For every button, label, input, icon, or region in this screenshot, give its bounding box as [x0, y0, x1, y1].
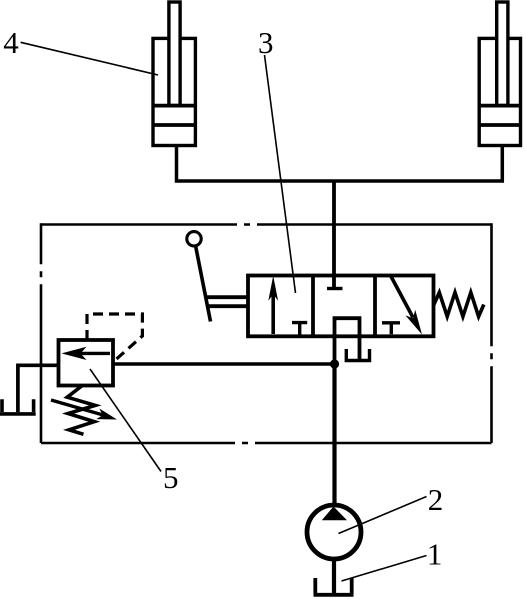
enclosure dash-dot box right edge [490, 223, 493, 443]
wire: pump to valve [332, 364, 336, 507]
valve divider right [373, 276, 377, 337]
relief valve 5 body [59, 340, 114, 386]
pump 2 triangle [322, 507, 347, 521]
lever knob [187, 232, 201, 246]
valve left position: blocked port T [292, 323, 307, 335]
cylinder right: body [479, 38, 520, 145]
enclosure dash-dot box left edge [40, 223, 43, 443]
svg-text:3: 3 [258, 25, 274, 60]
svg-text:5: 5 [163, 460, 179, 495]
cylinder 4 left: body [153, 38, 195, 145]
relief valve pilot dashed line [87, 314, 142, 363]
cylinder 4 left: piston line 2 [153, 123, 195, 127]
enclosure dash-dot box top edge [41, 223, 492, 226]
wire: relief valve inlet [113, 362, 335, 366]
lever shaft [196, 247, 211, 322]
cylinder right: piston line 2 [479, 123, 520, 127]
relief valve spring [67, 386, 95, 434]
valve right position: diagonal arrow [390, 275, 413, 318]
enclosure dash-dot box bottom edge [41, 442, 492, 445]
svg-text:1: 1 [427, 536, 443, 571]
valve right position: blocked port T [382, 323, 400, 335]
leader 4 [21, 42, 158, 75]
wire: supply drop to valve [332, 181, 336, 289]
wire: pump suction [332, 558, 336, 595]
leader 1 [342, 556, 427, 582]
valve spring right [434, 292, 484, 316]
lever fork top [206, 295, 249, 299]
junction node [330, 359, 339, 368]
cylinder 4 left: piston line 1 [153, 104, 195, 108]
leader 3 [265, 55, 296, 293]
valve divider left [311, 276, 315, 337]
tank 1 [314, 578, 354, 595]
wire: right cylinder outlet [334, 146, 502, 182]
pump 2 circle [307, 505, 361, 559]
tank at relief valve drain [0, 399, 36, 414]
relief valve adjustment arrow [51, 400, 103, 415]
cylinder 4 left: piston rod [169, 2, 180, 106]
drain tank under valve [345, 349, 372, 361]
svg-text:2: 2 [428, 482, 444, 517]
lever fork bottom [208, 304, 249, 308]
relief valve arrow [80, 352, 110, 355]
valve centre position: blocked top port T [327, 287, 343, 290]
cylinder right: piston line 1 [479, 104, 520, 108]
leader 2 [339, 497, 427, 534]
svg-text:4: 4 [3, 25, 19, 60]
valve 3 body [248, 276, 434, 337]
cylinder right: piston rod [497, 2, 508, 106]
wire: left cylinder outlet [177, 146, 335, 182]
valve left position: up arrow [271, 294, 275, 334]
valve centre position: P to T loop [335, 318, 360, 364]
wire: relief valve drain [18, 365, 59, 412]
leader 5 [90, 369, 161, 472]
